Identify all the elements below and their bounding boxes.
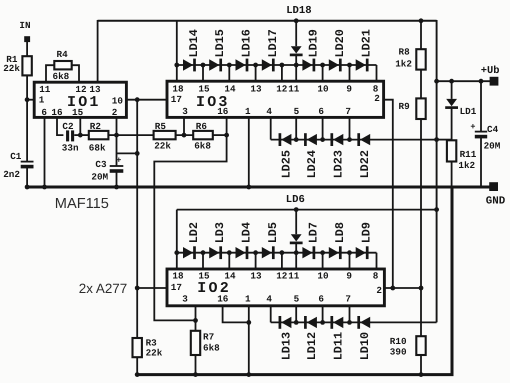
svg-text:12: 12 <box>276 84 288 95</box>
LED LD20 <box>329 29 347 71</box>
LED LD18 <box>286 5 311 65</box>
node junction R5/R6/pin3 <box>182 133 187 138</box>
svg-text:11: 11 <box>288 271 300 282</box>
svg-text:+: + <box>470 122 475 132</box>
LED LD11 <box>331 316 345 360</box>
svg-text:R4: R4 <box>57 49 69 60</box>
wire IO3 bottom pin 6 stub <box>322 118 324 140</box>
node junction R7 node <box>193 318 198 323</box>
wire IO3 bottom pin 7 stub <box>349 118 351 140</box>
wire IO2 pin 2 wire <box>384 287 421 289</box>
node IN terminal <box>19 20 30 42</box>
svg-text:LD12: LD12 <box>305 332 319 360</box>
svg-text:22k: 22k <box>3 63 20 74</box>
wire IO2 top LED row <box>177 252 377 254</box>
LED LD6 <box>286 194 305 253</box>
capacitor C1 <box>3 151 33 180</box>
node junction top row x255.6 <box>253 63 258 68</box>
wire IO1 pin 2 stub <box>116 118 118 136</box>
wire IO2 LED top wire <box>177 209 437 211</box>
svg-text:3: 3 <box>182 106 188 117</box>
svg-text:4: 4 <box>266 293 272 304</box>
svg-text:68k: 68k <box>89 142 106 153</box>
svg-text:13: 13 <box>250 84 262 95</box>
LED LD10 <box>358 316 372 360</box>
wire R5-R6 <box>176 134 194 136</box>
svg-text:6k8: 6k8 <box>203 342 220 353</box>
svg-text:R10: R10 <box>390 336 407 347</box>
svg-text:9: 9 <box>346 271 352 282</box>
LED LD15 <box>209 29 227 71</box>
node junction IO2 top row x281.9 <box>280 250 285 255</box>
wire IO3 pin 3 stub <box>183 118 185 136</box>
LED LD8 <box>329 222 347 259</box>
svg-text:LD4: LD4 <box>240 222 254 243</box>
svg-text:18: 18 <box>172 84 184 95</box>
wire IO1 pin 16 to C2 <box>57 118 63 136</box>
node +Ub vertical distribution line <box>436 20 438 322</box>
resistor R11 <box>447 140 477 171</box>
svg-text:LD21: LD21 <box>360 29 374 57</box>
svg-text:IO2: IO2 <box>197 280 231 297</box>
node junction R1/IO1 pin1 <box>25 97 30 102</box>
LED LD14 <box>183 29 201 71</box>
svg-text:5: 5 <box>294 293 300 304</box>
node junction bottom row pin 5 <box>294 137 299 142</box>
svg-text:12: 12 <box>276 271 288 282</box>
svg-text:4: 4 <box>266 106 272 117</box>
node junction R7/bottom rail <box>193 372 198 377</box>
wire IO1 pin13 riser <box>97 20 99 82</box>
svg-text:20M: 20M <box>91 171 108 182</box>
op-amp IC IO1 (MAF115) <box>34 82 126 118</box>
wire IO2 row left riser <box>176 210 178 269</box>
resistor R10 <box>390 336 426 358</box>
svg-text:1: 1 <box>245 293 251 304</box>
svg-text:22k: 22k <box>146 348 163 359</box>
svg-text:LD25: LD25 <box>279 150 293 178</box>
wire to IO2 pin 17 <box>137 287 167 289</box>
wire IO2 bottom pin 5 stub <box>295 306 297 322</box>
LED LD2 <box>183 222 201 259</box>
svg-text:MAF115: MAF115 <box>55 196 109 212</box>
wire R7 top lead <box>195 320 197 331</box>
svg-text:10: 10 <box>317 84 329 95</box>
LED LD1 <box>445 81 477 140</box>
wire IO3 top pin stub x281.9 <box>281 65 283 81</box>
svg-text:11: 11 <box>39 84 51 95</box>
svg-text:1: 1 <box>39 94 45 105</box>
node junction pin10 <box>135 97 140 102</box>
wire R3 to bottom rail <box>136 357 138 374</box>
svg-text:C3: C3 <box>95 159 107 170</box>
node junction R10/bottom rail <box>419 372 424 377</box>
node junction C2/R2/pin15 <box>78 133 83 138</box>
wire IO3 top pin stub x255.6 <box>255 65 257 81</box>
svg-text:33n: 33n <box>62 142 79 153</box>
wire R11 to GND rail <box>451 162 453 188</box>
capacitor C3 <box>91 156 123 183</box>
wire IO3 pin 11 stub <box>295 65 297 81</box>
node junction IO2 top row x349.5 <box>347 250 352 255</box>
svg-text:2: 2 <box>112 107 118 118</box>
node junction IO2 bottom row pin 5 <box>294 320 299 325</box>
wire IO2 top pin stub x255.6 <box>255 253 257 269</box>
wire IO3 pin 16 stub <box>226 118 228 136</box>
wire C3 to GND rail <box>116 171 118 187</box>
node junction top wire / +Ub line <box>434 207 439 212</box>
resistor R8 <box>395 46 425 69</box>
wire row to R11 top <box>437 139 452 141</box>
node junction top row x322.6 <box>320 63 325 68</box>
wire C1 to GND rail <box>26 167 28 187</box>
svg-text:2x A277: 2x A277 <box>79 281 127 296</box>
wire IO2 top pin stub x281.9 <box>281 253 283 269</box>
wire IO3 top LED row <box>177 64 377 66</box>
node junction top row x176.8 <box>174 63 179 68</box>
wire IO3 pin 8 riser <box>376 65 378 81</box>
wire IO2 top pin stub x229.3 <box>228 253 230 269</box>
node junction top row x281.9 <box>280 63 285 68</box>
svg-text:9: 9 <box>346 84 352 95</box>
svg-text:2: 2 <box>376 285 382 296</box>
node junction pin2/R10 <box>419 286 424 291</box>
resistor R7 <box>191 331 220 355</box>
svg-text:LD13: LD13 <box>279 332 293 360</box>
node junction top row x349.5 <box>347 63 352 68</box>
node GND rail left end junction <box>25 185 30 190</box>
wire R7 to bottom rail <box>195 355 197 375</box>
LED LD4 <box>236 222 254 259</box>
node junction IO2 bottom row pin 6 <box>320 320 325 325</box>
LED LD5 <box>262 222 280 259</box>
wire R9 down to R10 <box>420 119 422 336</box>
wire IO2 top pin stub x322.6 <box>322 253 324 269</box>
wire C3 node to pin10 line <box>117 152 138 154</box>
node junction IO2 top row x255.6 <box>253 250 258 255</box>
svg-text:LD11: LD11 <box>331 332 345 360</box>
LED LD13 <box>279 316 293 360</box>
node junction C3/GND <box>114 185 119 190</box>
label MAF115 <box>55 196 109 212</box>
node junction bottom row pin 6 <box>320 137 325 142</box>
wire IO2 bottom pin 6 stub <box>322 306 324 322</box>
svg-text:7: 7 <box>345 106 351 117</box>
svg-text:11: 11 <box>288 84 300 95</box>
wire bottom rail to GND rail link <box>137 187 452 375</box>
wire pin16 route to R7 node <box>154 135 226 320</box>
capacitor C2 <box>62 121 79 154</box>
wire +Ub rail to C4 <box>480 81 482 131</box>
node junction top row x296.2 <box>294 63 299 68</box>
svg-text:R9: R9 <box>399 101 411 112</box>
svg-text:R8: R8 <box>399 46 411 57</box>
node junction R6/pin16 <box>224 133 229 138</box>
svg-text:18: 18 <box>172 271 184 282</box>
node junction IO2 bottom row pin 7 <box>347 320 352 325</box>
svg-text:13: 13 <box>250 271 262 282</box>
svg-text:LD7: LD7 <box>306 222 320 243</box>
svg-text:LD5: LD5 <box>266 222 280 243</box>
svg-text:LD10: LD10 <box>358 332 372 360</box>
svg-text:LD9: LD9 <box>360 222 374 243</box>
svg-text:LD8: LD8 <box>333 222 347 243</box>
LED LD25 <box>279 133 293 178</box>
svg-text:1k2: 1k2 <box>458 160 475 171</box>
wire IO3 pin 1 to GND <box>248 118 250 188</box>
wire pin10 long vertical to R3 <box>136 100 138 339</box>
svg-text:R6: R6 <box>196 121 208 132</box>
svg-text:LD2: LD2 <box>187 222 201 243</box>
svg-text:6k8: 6k8 <box>53 71 70 82</box>
svg-text:LD3: LD3 <box>213 222 227 243</box>
resistor R3 <box>133 337 163 358</box>
svg-text:C1: C1 <box>10 151 22 162</box>
wire IO3 top pin stub x203.0 <box>202 65 204 81</box>
wire R6 to IO3 pin16 <box>213 134 227 136</box>
svg-text:IO3: IO3 <box>196 94 230 111</box>
svg-text:LD17: LD17 <box>266 29 280 57</box>
LED LD22 <box>358 133 372 178</box>
svg-text:C4: C4 <box>487 124 499 135</box>
wire IO1 pin 15 stub <box>79 118 81 136</box>
LED LD24 <box>305 133 319 178</box>
LED LD17 <box>262 29 280 71</box>
node junction R3/bottom rail <box>135 372 140 377</box>
wire pin2 down to C3 <box>116 135 118 166</box>
node junction C4/+Ub rail <box>479 79 484 84</box>
LED LD9 <box>356 222 374 259</box>
wire IO3 top pin stub x229.3 <box>228 65 230 81</box>
LED driver IC IO3 (A277) <box>167 81 384 117</box>
svg-text:1k2: 1k2 <box>395 58 412 69</box>
node junction IO2 top row x229.3 <box>227 250 232 255</box>
wire IO1 pin10 to IO3 pin17 <box>126 99 167 101</box>
svg-text:2: 2 <box>374 93 380 104</box>
svg-text:390: 390 <box>390 346 407 357</box>
svg-text:10: 10 <box>112 96 124 107</box>
LED LD23 <box>331 133 345 178</box>
node junction LD6/top wire <box>294 207 299 212</box>
svg-text:17: 17 <box>171 94 182 105</box>
svg-text:LD20: LD20 <box>333 29 347 57</box>
svg-text:GND: GND <box>486 196 506 208</box>
wire C2 to junction <box>74 134 89 136</box>
wire top supply rail <box>98 20 437 22</box>
node junction on pin10 line <box>135 151 140 156</box>
svg-text:IN: IN <box>19 20 30 31</box>
node junction R2/pin2 <box>114 133 119 138</box>
capacitor C4 <box>470 122 500 151</box>
wire IO2 pin 8 riser <box>376 253 378 269</box>
svg-text:2n2: 2n2 <box>3 169 20 180</box>
wire to IO1 pin 1 <box>27 99 35 101</box>
svg-text:LD1: LD1 <box>460 106 477 117</box>
wire R2 to pin2 junction <box>108 134 116 136</box>
node junction top row x229.3 <box>227 63 232 68</box>
svg-text:R2: R2 <box>90 121 102 132</box>
svg-text:8: 8 <box>373 271 379 282</box>
resistor R5 <box>154 121 176 151</box>
svg-text:22k: 22k <box>154 140 171 151</box>
node junction top row x203.0 <box>201 63 206 68</box>
wire IO2 pin 11 stub <box>295 253 297 269</box>
node junction pin6/GND <box>42 185 47 190</box>
LED LD3 <box>209 222 227 259</box>
wire +Ub rail to terminal <box>437 80 491 82</box>
LED LD19 <box>302 29 320 71</box>
wire IO2 pin 3 stub <box>195 306 197 320</box>
node junction +Ub line/rail <box>434 79 439 84</box>
svg-text:6: 6 <box>318 293 324 304</box>
wire IO2 pin 4 corner <box>270 306 272 322</box>
wire R4 left to IO1 pin 11 <box>46 65 54 82</box>
svg-text:R7: R7 <box>203 331 214 342</box>
svg-text:6k8: 6k8 <box>194 140 211 151</box>
wire top rail to R8 <box>420 21 422 50</box>
node GND terminal <box>486 182 506 207</box>
wire IO3 bottom LED row <box>271 139 437 141</box>
node junction pin1/GND <box>246 185 251 190</box>
LED LD16 <box>236 29 254 71</box>
node junction IO2 top row x203.0 <box>201 250 206 255</box>
wire LED row left riser (to top rail) <box>176 21 178 81</box>
wire IO2 pin 16 route <box>223 306 249 322</box>
wire IO3 pin 4 corner <box>270 118 272 140</box>
svg-text:5: 5 <box>294 106 300 117</box>
wire IO2 top pin stub x203.0 <box>202 253 204 269</box>
wire IO3 bottom pin 5 stub <box>295 118 297 140</box>
svg-text:6: 6 <box>41 107 47 118</box>
wire C4 to GND rail <box>480 137 482 187</box>
LED driver IC IO2 (A277) <box>167 269 384 306</box>
svg-text:7: 7 <box>345 293 351 304</box>
node junction pin1/bottom rail <box>246 372 251 377</box>
svg-text:LD15: LD15 <box>213 29 227 57</box>
svg-text:20M: 20M <box>484 141 501 152</box>
wire IO2 bottom LED row <box>271 321 437 323</box>
svg-text:R5: R5 <box>155 121 167 132</box>
wire R4 right to IO1 pin 12 <box>72 65 79 82</box>
wire IO1 pin 6 to GND rail <box>44 118 46 188</box>
wire IN to R1 <box>26 42 28 56</box>
node junction IO2 top row x296.2 <box>294 250 299 255</box>
resistor R6 <box>193 121 213 151</box>
resistor R4 <box>53 49 72 82</box>
node junction IO2 top row x176.8 <box>174 250 179 255</box>
node GND rail <box>26 186 491 189</box>
svg-text:LD22: LD22 <box>358 150 372 178</box>
resistor R1 <box>3 54 32 76</box>
wire pin2 junction to R5 <box>117 134 154 136</box>
node junction R8/top rail <box>419 18 424 23</box>
svg-text:R11: R11 <box>460 149 477 160</box>
label 2x A277 <box>79 281 127 296</box>
svg-text:C2: C2 <box>62 121 74 132</box>
resistor R2 <box>89 121 109 154</box>
wire R1 to C1 <box>26 75 28 161</box>
svg-text:LD16: LD16 <box>240 29 254 57</box>
svg-text:16: 16 <box>51 107 63 118</box>
node junction pin17 wire <box>135 286 140 291</box>
svg-text:LD18: LD18 <box>286 5 311 17</box>
wire IO2 bottom pin 7 stub <box>349 306 351 322</box>
svg-text:10: 10 <box>317 271 329 282</box>
node junction IO2 top row x322.6 <box>320 250 325 255</box>
svg-text:LD6: LD6 <box>286 194 305 206</box>
node junction LD18/top rail <box>294 18 299 23</box>
svg-text:3: 3 <box>182 293 188 304</box>
node junction LD1/+Ub rail <box>449 79 454 84</box>
svg-text:LD24: LD24 <box>305 150 319 178</box>
svg-text:+: + <box>116 156 121 166</box>
wire IO3 top pin stub x322.6 <box>322 65 324 81</box>
wire IO2 top pin stub x349.5 <box>349 253 351 269</box>
wire R8 to R9 <box>420 70 422 99</box>
LED LD7 <box>302 222 320 259</box>
svg-text:LD23: LD23 <box>331 150 345 178</box>
svg-text:LD19: LD19 <box>306 29 320 57</box>
node junction bottom row / +Ub line <box>434 137 439 142</box>
node junction pin16/pin1 <box>246 320 251 325</box>
node +Ub terminal <box>481 65 500 85</box>
node junction pin2/GND riser <box>390 286 395 291</box>
resistor R9 <box>399 98 426 119</box>
svg-text:6: 6 <box>318 106 324 117</box>
svg-text:IO1: IO1 <box>67 94 101 111</box>
svg-text:+Ub: +Ub <box>481 65 500 77</box>
svg-text:1: 1 <box>245 106 251 117</box>
wire R10 to bottom rail <box>420 355 422 375</box>
node junction bottom row pin 7 <box>347 137 352 142</box>
LED LD21 <box>356 29 374 71</box>
wire IO2 pin 1 to bottom rail <box>248 306 250 375</box>
wire IO3 pin 2 route <box>384 100 393 288</box>
svg-text:17: 17 <box>171 282 182 293</box>
svg-text:LD14: LD14 <box>187 29 201 57</box>
wire IO3 top pin stub x349.5 <box>349 65 351 81</box>
LED LD12 <box>305 316 319 360</box>
